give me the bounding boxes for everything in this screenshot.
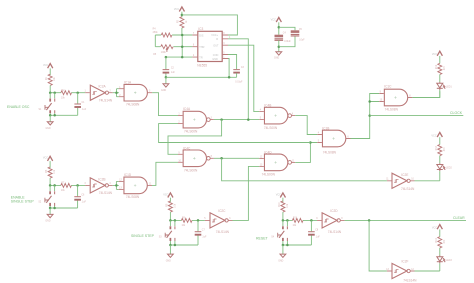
svg-text:IC4D: IC4D xyxy=(264,150,272,154)
op-amp U4A AND3 74LS08 xyxy=(317,130,350,147)
svg-text:IC1B: IC1B xyxy=(322,127,329,131)
wire 555 R pin 4 down to NAND1 out net xyxy=(228,39,248,120)
svg-text:GND: GND xyxy=(45,221,50,223)
svg-text:100uF: 100uF xyxy=(284,41,291,43)
wire NAND1 out row to NAND2 in2 xyxy=(214,119,259,121)
svg-text:VCC+: VCC+ xyxy=(211,34,218,37)
wire NAND-B1 out to inverter IC2E input xyxy=(222,158,387,181)
svg-text:10uF: 10uF xyxy=(299,40,305,42)
svg-text:0.01uF: 0.01uF xyxy=(235,81,243,83)
capacitor C3 0.01uF (control) xyxy=(233,70,240,73)
wire AND4 out to LED chain xyxy=(412,91,439,97)
op-amp U1A schmitt inverter 74LS14 xyxy=(85,85,113,100)
svg-text:THR: THR xyxy=(199,46,204,49)
ground xyxy=(49,115,51,121)
resistor R13 470 xyxy=(438,145,442,156)
svg-text:OUT: OUT xyxy=(213,45,219,48)
svg-text:IC1A: IC1A xyxy=(124,80,132,84)
svg-text:74LS14N: 74LS14N xyxy=(401,187,415,191)
svg-text:IC2E: IC2E xyxy=(401,173,408,177)
power VCC (reset) xyxy=(280,193,285,198)
wire bottom row xyxy=(50,207,78,209)
wire VCC loop to 555 pin 8 xyxy=(182,15,238,35)
resistor R12 470 (clock LED) xyxy=(438,63,442,74)
trimmer R5 100k xyxy=(155,46,192,48)
svg-text:100k: 100k xyxy=(161,52,167,54)
svg-text:VCC: VCC xyxy=(271,18,276,21)
svg-text:LED1: LED1 xyxy=(446,86,452,88)
LED2 (inv clock) xyxy=(437,163,446,171)
svg-text:GND: GND xyxy=(166,260,171,262)
power VCC (top-left switch pull-up) xyxy=(48,64,53,69)
svg-text:GND: GND xyxy=(212,58,218,61)
resistor R14 470 (clear LED) xyxy=(438,237,442,248)
ground (decoupling) xyxy=(276,52,282,55)
junction xyxy=(49,91,52,94)
svg-text:TR: TR xyxy=(199,56,203,59)
op-amp U1F schmitt inverter 74LS14 (clear bar) xyxy=(387,263,415,278)
capacitor C8 (debounce) xyxy=(310,220,312,245)
pin stubs 555 left: 7 DIS, 6 THR, 2 TR xyxy=(192,35,197,57)
wire node CLOCK xyxy=(370,115,464,117)
capacitor C6 (debounce) xyxy=(77,185,79,208)
svg-text:SINGLE STEP: SINGLE STEP xyxy=(131,234,155,238)
ground xyxy=(282,245,284,254)
power VCC (inv clock LED) xyxy=(437,132,442,137)
resistor R10 10k (vertical pull-up) xyxy=(281,201,285,212)
svg-text:IC2D: IC2D xyxy=(330,209,338,213)
wire inverter out up to NAND-B2 in2 xyxy=(233,166,260,220)
LED1 (clock) xyxy=(437,82,446,90)
resistor R9 10k (series) xyxy=(181,218,192,222)
switch S1 (enable osc) xyxy=(45,93,55,116)
svg-text:CLOCK: CLOCK xyxy=(450,111,463,115)
wire rail NAND-B2 out to NAND1 in2 xyxy=(159,124,311,143)
wire tie vertical DIS-THR-TR xyxy=(181,35,183,57)
svg-text:CLEAR: CLEAR xyxy=(453,216,465,220)
svg-text:IC2B: IC2B xyxy=(98,177,105,181)
op-amp U1D schmitt inverter 74LS14 (reset) xyxy=(317,213,345,228)
wire NAND-B1 out row to NAND-B2 in1 xyxy=(214,157,259,159)
svg-text:CON: CON xyxy=(213,54,219,57)
power VCC (clear LED) xyxy=(437,225,442,230)
svg-text:74LS08N: 74LS08N xyxy=(323,150,337,154)
resistor R7 10k (series) xyxy=(61,183,72,187)
capacitor C1 (debounce) xyxy=(77,93,79,116)
svg-text:IC2C: IC2C xyxy=(218,209,226,213)
svg-text:LED2: LED2 xyxy=(446,168,452,170)
svg-text:74LS08N: 74LS08N xyxy=(385,107,399,111)
op-amp U3C NAND-B1 74LS00 xyxy=(178,150,214,167)
resistor R11 10k (series) xyxy=(292,218,303,222)
capacitor C7 (debounce) xyxy=(197,220,199,245)
wire 555 CON pin 5 to cap xyxy=(228,55,237,70)
svg-text:VCC: VCC xyxy=(163,193,168,196)
svg-text:74LS00N: 74LS00N xyxy=(262,172,276,176)
wire AND3 out up to AND4 inputs xyxy=(351,94,380,139)
pin stubs 555 right: 8 VCC, 4 R, 3 OUT, 5 CON, 1 GND xyxy=(222,35,228,59)
svg-text:74LS08N: 74LS08N xyxy=(126,102,140,106)
svg-text:IC1D: IC1D xyxy=(124,173,132,177)
svg-text:IC4A: IC4A xyxy=(183,107,191,111)
svg-text:GND: GND xyxy=(274,58,279,60)
svg-text:IC3: IC3 xyxy=(198,27,203,31)
svg-text:IC1C: IC1C xyxy=(384,84,392,88)
svg-text:.1uF: .1uF xyxy=(81,202,86,204)
wire bottom row xyxy=(170,244,198,246)
svg-text:74LS14N: 74LS14N xyxy=(328,230,342,234)
svg-text:74LS00N: 74LS00N xyxy=(264,126,278,130)
op-amp U3D NAND-B2 74LS00 xyxy=(259,154,295,171)
svg-text:IC2F: IC2F xyxy=(402,260,409,264)
wire node row xyxy=(50,184,85,186)
svg-text:.1uF: .1uF xyxy=(202,237,207,239)
op-amp U1B schmitt inverter 74LS14 xyxy=(85,178,113,193)
resistor R6 10k (vertical pull-up) xyxy=(48,167,52,178)
wire inverter out to AND inputs xyxy=(113,181,119,189)
power VCC (clock LED) xyxy=(437,51,442,56)
op-amp U3A NAND1 74LS00 xyxy=(178,111,214,128)
ground (555 timing cap) xyxy=(165,77,167,84)
wire xyxy=(49,85,51,92)
svg-text:SINGLE STEP: SINGLE STEP xyxy=(11,200,35,204)
svg-text:IC4B: IC4B xyxy=(264,104,271,108)
capacitor C2 1uF (timing) xyxy=(165,57,167,77)
wire xyxy=(49,68,51,75)
ground xyxy=(169,245,171,254)
wire 555 GND pin 1 down xyxy=(228,59,229,78)
svg-text:74LS14N: 74LS14N xyxy=(403,279,417,283)
wire IC2E out to LED2 xyxy=(415,180,440,182)
LED3 (clear) xyxy=(437,256,446,264)
power VCC (single step) xyxy=(168,193,173,198)
svg-text:74LS08N: 74LS08N xyxy=(126,195,140,199)
wire row C (TR) xyxy=(166,56,193,58)
capacitor C5 10uF xyxy=(291,30,300,36)
svg-text:VCC: VCC xyxy=(276,193,281,196)
svg-text:VCC: VCC xyxy=(431,135,436,138)
op-amp U1E schmitt inverter 74LS14 (clock bar) xyxy=(387,173,415,188)
svg-text:VCC: VCC xyxy=(432,226,437,229)
svg-text:74LS14N: 74LS14N xyxy=(216,230,230,234)
resistor R3 1k (555 supply to DIS) xyxy=(180,17,184,28)
power VCC (555) xyxy=(179,7,184,12)
wire cross-couple NAND1 out to NAND-B1 in1 xyxy=(168,120,222,155)
svg-text:R12: R12 xyxy=(436,64,438,69)
wire row A (DIS) xyxy=(155,34,192,36)
resistor R4 250k xyxy=(161,33,172,37)
op-amp U3B NAND2 74LS00 xyxy=(259,107,295,124)
wire node row xyxy=(50,92,85,94)
wire to second cap xyxy=(279,27,295,46)
svg-text:RESET: RESET xyxy=(256,236,269,240)
resistor R8 10k (vertical pull-up) xyxy=(168,201,172,212)
switch S4 (reset) xyxy=(278,220,288,243)
junction xyxy=(181,14,184,17)
wire node row xyxy=(170,219,205,221)
svg-text:DIS: DIS xyxy=(199,34,204,37)
wire node CLEAR xyxy=(345,219,466,221)
svg-text:.1uF: .1uF xyxy=(315,237,320,239)
svg-text:1uF: 1uF xyxy=(171,72,176,74)
power VCC (bottom-left) xyxy=(48,156,53,161)
svg-text:GND: GND xyxy=(46,128,51,130)
svg-text:GND: GND xyxy=(161,90,166,92)
svg-text:VCC: VCC xyxy=(43,64,48,67)
wire bottom row xyxy=(50,114,77,116)
svg-text:GND: GND xyxy=(278,260,283,262)
svg-text:74LS14N: 74LS14N xyxy=(99,191,113,195)
wire bottom row xyxy=(283,244,312,246)
wire AND-BL out up to NAND-B1 in2 xyxy=(152,162,178,185)
svg-text:250k: 250k xyxy=(153,32,159,34)
wire AND out down to NAND1 in1 xyxy=(152,93,178,116)
svg-text:.1uF: .1uF xyxy=(82,109,87,111)
svg-text:R13: R13 xyxy=(436,145,438,150)
svg-text:IC2A: IC2A xyxy=(99,85,107,89)
svg-text:VCC: VCC xyxy=(174,8,179,11)
wire switch S3 bottom extension xyxy=(170,243,175,245)
wire 555 OUT pin 3 down to NAND2 in1 xyxy=(228,45,259,111)
svg-text:74LS00N: 74LS00N xyxy=(184,168,198,172)
svg-text:LED3: LED3 xyxy=(446,260,452,262)
svg-text:ENABLE OSC: ENABLE OSC xyxy=(7,105,30,109)
op-amp U2 NE555 timer box xyxy=(198,31,222,61)
wire NAND-B2 out up to rail and AND3 in2 xyxy=(295,143,317,163)
svg-text:VCC: VCC xyxy=(43,157,48,160)
svg-text:74LS14N: 74LS14N xyxy=(99,99,113,103)
wire node row xyxy=(283,219,317,221)
AND gate IC1A 74LS08 xyxy=(119,84,152,101)
wire NAND2 out to AND3 in1 xyxy=(295,116,317,135)
wire inverter out to AND inputs xyxy=(113,89,119,97)
op-amp U1C schmitt inverter 74LS14 (single step) xyxy=(205,213,233,228)
resistor R2 10k (series) xyxy=(61,91,72,95)
wire left vertical xyxy=(154,35,156,47)
switch S2 (enable single step) xyxy=(45,185,55,208)
switch S3 (single step) xyxy=(165,220,175,243)
resistor R1 10k (vertical pull-up) xyxy=(48,74,52,85)
svg-text:R10: R10 xyxy=(279,202,281,207)
wire IC2F out to LED3 xyxy=(415,270,440,272)
wire CLEAR down to inverter IC2F input xyxy=(369,220,387,271)
svg-text:IC4C: IC4C xyxy=(183,146,191,150)
power VCC (decoupling) xyxy=(276,18,281,23)
wire gnd row under 555 xyxy=(166,76,237,78)
svg-text:R: R xyxy=(216,38,218,41)
wire switch S4 bottom extension xyxy=(283,243,288,245)
op-amp U4B AND4 74LS08 xyxy=(379,89,412,106)
AND gate IC1D 74LS08 (bottom-left) xyxy=(119,177,152,194)
svg-text:74LS00N: 74LS00N xyxy=(184,130,198,134)
svg-text:NE555: NE555 xyxy=(197,63,207,67)
svg-text:VCC: VCC xyxy=(432,53,437,56)
svg-text:R14: R14 xyxy=(436,238,438,243)
ground xyxy=(49,208,51,214)
capacitor C4 100uF electrolytic xyxy=(275,35,284,41)
